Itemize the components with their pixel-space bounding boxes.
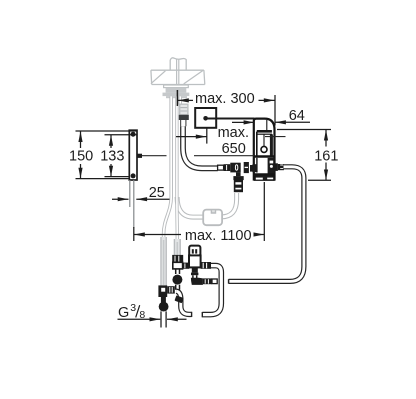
svg-text:G: G <box>118 305 129 321</box>
svg-text:64: 64 <box>289 108 305 124</box>
svg-text:25: 25 <box>149 185 165 201</box>
svg-text:161: 161 <box>314 148 338 164</box>
svg-text:133: 133 <box>100 149 124 165</box>
svg-text:max.: max. <box>218 125 249 141</box>
svg-text:150: 150 <box>69 149 93 165</box>
svg-text:max. 300: max. 300 <box>195 91 255 107</box>
svg-text:650: 650 <box>222 141 246 157</box>
svg-text:max. 1100: max. 1100 <box>185 228 252 244</box>
svg-text:3: 3 <box>130 302 136 314</box>
svg-text:8: 8 <box>139 309 145 321</box>
